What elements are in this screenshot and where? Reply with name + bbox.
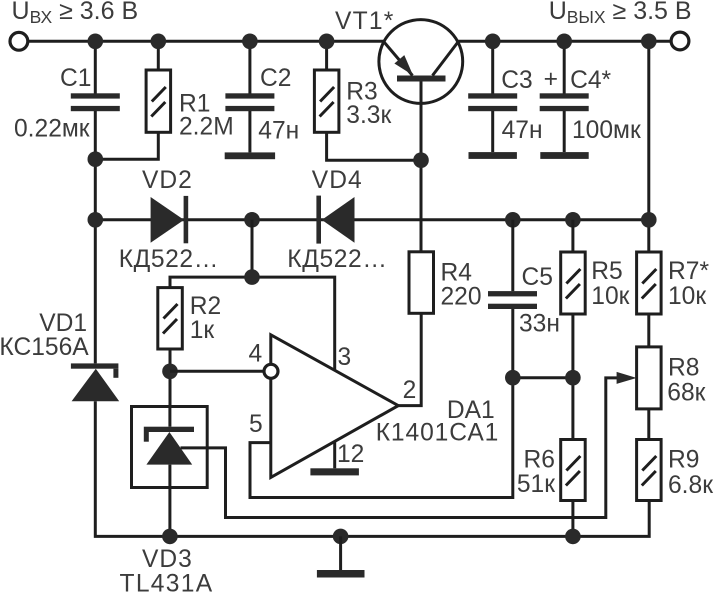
zener VD1 (71, 363, 119, 401)
svg-text:47н: 47н (502, 117, 543, 144)
junction rail2 R5 (565, 212, 581, 228)
svg-text:R7*: R7* (668, 258, 709, 285)
wire R8 bottom to R9 top (647, 409, 650, 440)
terminal input (left open circle) (10, 32, 28, 50)
wire VT1 base column (base to R4) (420, 82, 423, 252)
svg-text:33н: 33н (519, 311, 560, 338)
svg-text:1к: 1к (190, 317, 215, 344)
terminal output (right open circle) (671, 32, 689, 50)
junction top rail C3 (485, 34, 501, 50)
wire pin2 output to R4 (398, 313, 421, 406)
transistor VT1 (379, 20, 463, 104)
resistor R3 (314, 70, 339, 132)
resistor R1 (146, 70, 171, 132)
junction ground rail / ground symbol (333, 529, 349, 545)
junction ref node (244, 269, 260, 285)
op-amp DA1 (264, 335, 398, 478)
wire C5 top lead (511, 220, 514, 291)
junction rail2 C5 (505, 212, 521, 228)
capacitor C2 (225, 93, 274, 111)
junction rail2 right column (641, 212, 657, 228)
svg-text:C1: C1 (60, 65, 91, 92)
capacitor C5 (488, 291, 537, 309)
junction R6 / ground rail (565, 529, 581, 545)
resistor R7 (637, 252, 662, 314)
svg-text:10к: 10к (591, 283, 629, 310)
ground symbol (center bottom) (317, 536, 365, 577)
wire pin5 feedback loop (250, 378, 513, 498)
ground C3 (bar) (469, 152, 517, 159)
wire top rail right segment (458, 40, 672, 43)
wire pin4 (170, 370, 264, 373)
svg-text:47н: 47н (258, 118, 299, 145)
junction top rail right column (641, 34, 657, 50)
svg-text:R6: R6 (524, 447, 555, 474)
wire R3 top lead (325, 41, 328, 70)
junction R3/base (413, 152, 429, 168)
wire C4 bottom lead (563, 111, 566, 152)
wire right column (output rail down to R7) (647, 41, 650, 252)
svg-text:C4*: C4* (570, 67, 611, 94)
svg-text:TL431A: TL431A (120, 571, 214, 596)
wire C3 bottom lead (491, 111, 494, 152)
shunt regulator VD3 TL431 (box) (132, 407, 208, 537)
resistor R4 (409, 252, 434, 313)
resistor R6 (561, 440, 586, 501)
svg-text:10к: 10к (668, 283, 706, 310)
wire R7 bottom to R8 top (647, 314, 650, 347)
resistor R5 (561, 252, 586, 314)
wire C5 bottom lead (511, 309, 514, 378)
junction C1/R1 (88, 151, 104, 167)
ground C4 (bar) (540, 152, 588, 159)
svg-text:4: 4 (249, 341, 263, 368)
svg-text:C2: C2 (260, 65, 291, 92)
svg-text:68к: 68к (667, 380, 705, 407)
wire left column bottom + ground rail (95, 401, 649, 536)
svg-text:VD1: VD1 (39, 310, 87, 337)
wire reference node (R2 top / pin3) (170, 277, 335, 370)
junction top rail C4 (556, 34, 572, 50)
wire R1 top lead (157, 41, 160, 70)
svg-text:C5: C5 (522, 264, 553, 291)
junction R2/pin4 (162, 364, 178, 380)
wire R8 wiper to VD3 ref (181, 378, 619, 518)
wire feedback node row (513, 376, 573, 379)
wire pin12 (333, 442, 336, 468)
svg-text:2.2M: 2.2M (179, 114, 234, 141)
svg-text:КД522…: КД522… (287, 246, 387, 273)
wire R2 bottom to VD3 (169, 349, 172, 407)
diode VD2 (151, 196, 189, 243)
wire R3 bottom to base node (327, 132, 421, 160)
diode VD4 (316, 196, 354, 244)
svg-text:VD3: VD3 (142, 546, 193, 573)
capacitor C3 (468, 93, 517, 111)
svg-text:R2: R2 (190, 293, 221, 320)
svg-text:100мк: 100мк (572, 117, 641, 144)
svg-text:R8: R8 (668, 355, 699, 382)
junction rail2 left column (88, 212, 104, 228)
capacitor C4 (540, 93, 589, 111)
wire R5 top lead (571, 220, 574, 252)
junction VD3 anode / ground rail (162, 529, 178, 545)
junction R5/R6 (565, 370, 581, 386)
wire left column upper (input to C1) (94, 41, 97, 93)
wire C4 top lead (563, 41, 566, 93)
svg-text:6.8к: 6.8к (668, 472, 713, 499)
ground C2 (bar) (225, 152, 275, 159)
resistor R2 (158, 288, 183, 349)
svg-text:5: 5 (249, 411, 263, 438)
svg-text:R4: R4 (441, 260, 472, 287)
wire VD junction branch down (251, 220, 254, 277)
wire rail2 (VD2/VD4 row) (95, 218, 649, 221)
svg-text:C3: C3 (501, 67, 532, 94)
potentiometer R8 (637, 347, 662, 409)
wire R5 bottom to R6 top (571, 314, 574, 440)
capacitor C1 (71, 93, 120, 111)
svg-text:12: 12 (337, 441, 364, 468)
svg-text:+: + (544, 66, 558, 93)
svg-text:VD2: VD2 (142, 167, 193, 194)
wiper arrow R8 (617, 372, 637, 384)
svg-text:0.22мк: 0.22мк (14, 116, 90, 143)
junction top rail C1 column (88, 34, 104, 50)
wire C3 top lead (491, 41, 494, 93)
svg-text:R9: R9 (668, 447, 699, 474)
svg-text:2: 2 (403, 377, 417, 404)
svg-text:КС156А: КС156А (0, 334, 89, 361)
svg-text:VT1*: VT1* (335, 8, 394, 35)
resistor R9 (637, 440, 662, 501)
wire top rail left segment (28, 40, 384, 43)
junction top rail R1 (151, 34, 167, 50)
svg-text:VD4: VD4 (312, 167, 363, 194)
svg-text:К1401СА1: К1401СА1 (376, 420, 500, 447)
wire C2 top lead (248, 41, 251, 93)
svg-text:R5: R5 (591, 258, 622, 285)
wire R6 bottom to ground rail (571, 501, 574, 537)
svg-text:3: 3 (338, 344, 352, 371)
svg-text:КД522…: КД522… (119, 246, 219, 273)
junction top rail C2 (242, 34, 258, 50)
svg-text:220: 220 (441, 284, 482, 311)
junction C5/pin5 (505, 370, 521, 386)
ground pin12 (bar) (310, 468, 359, 475)
svg-text:51к: 51к (517, 471, 555, 498)
wire left column (C1 bottom through rail2 to VD1) (94, 111, 97, 363)
svg-text:3.3к: 3.3к (346, 102, 391, 129)
wire R1 bottom to C1 node (95, 132, 158, 159)
wire C2 bottom lead (248, 111, 251, 152)
junction rail2 VD2/VD4 (244, 212, 260, 228)
junction top rail R3 (319, 34, 335, 50)
